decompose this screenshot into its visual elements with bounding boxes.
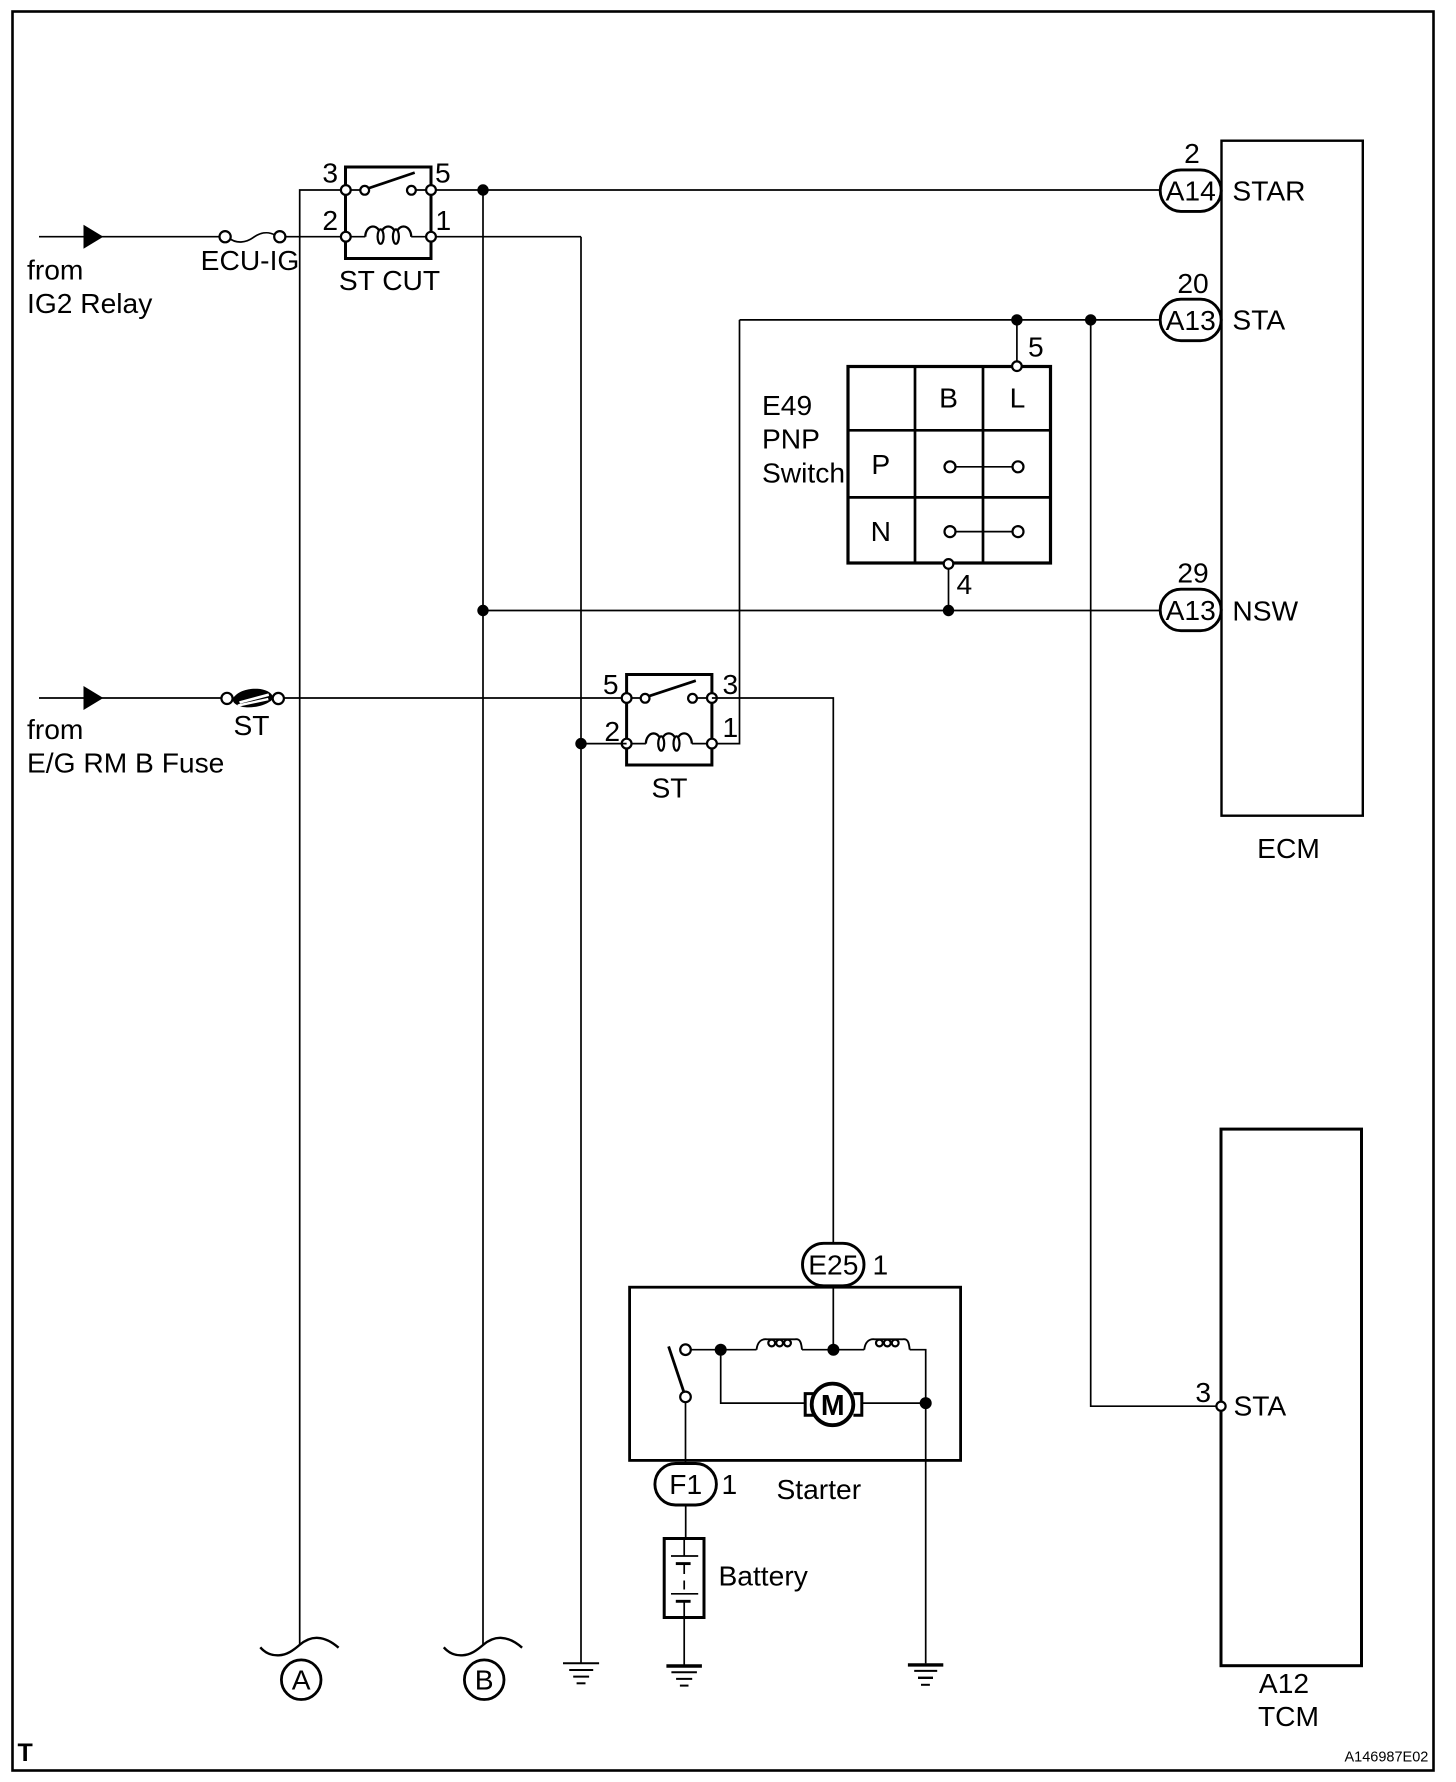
connector F1 <box>655 1464 717 1506</box>
wire switch branch down to motor <box>721 1350 806 1403</box>
wire STA corner down to ST relay pin 1 <box>712 320 740 744</box>
fuse ECU-IG <box>220 231 286 242</box>
svg-text:from: from <box>27 713 83 745</box>
svg-text:ST: ST <box>651 772 687 804</box>
ground left trunk <box>563 1663 599 1683</box>
arrow from IG2 Relay <box>84 225 104 249</box>
wire switch to connector F1 <box>685 1402 687 1462</box>
motor M <box>805 1384 862 1426</box>
svg-text:3: 3 <box>1195 1376 1211 1408</box>
svg-text:A: A <box>292 1664 311 1696</box>
svg-text:ECM: ECM <box>1257 832 1320 864</box>
wire motor right to corner <box>862 1402 926 1404</box>
wire from IG2 Relay input <box>39 236 220 238</box>
wire STA line to ECM <box>740 319 1161 321</box>
wire node on STAR line down to break B <box>482 190 484 1645</box>
svg-text:F1: F1 <box>669 1468 702 1500</box>
svg-text:from: from <box>27 254 83 286</box>
relay ST <box>622 675 717 766</box>
connector E25 <box>803 1243 865 1286</box>
pin TCM STA 3 <box>1216 1402 1225 1411</box>
PNP switch E49 <box>848 361 1051 568</box>
svg-text:5: 5 <box>603 668 619 700</box>
junction STA to TCM branch <box>1085 314 1096 325</box>
battery <box>664 1539 704 1618</box>
svg-text:T: T <box>18 1739 33 1767</box>
node A <box>281 1660 321 1700</box>
svg-text:1: 1 <box>723 711 739 743</box>
svg-text:NSW: NSW <box>1232 594 1298 626</box>
svg-text:E25: E25 <box>808 1248 858 1280</box>
svg-text:P: P <box>871 448 890 480</box>
svg-text:4: 4 <box>957 568 973 600</box>
starter coil 2 <box>864 1339 910 1349</box>
svg-text:Starter: Starter <box>777 1473 862 1505</box>
break symbol A <box>260 1638 338 1655</box>
connector A14 STAR <box>1160 170 1221 212</box>
svg-text:IG2 Relay: IG2 Relay <box>27 287 153 319</box>
svg-text:M: M <box>821 1390 845 1422</box>
wire ST CUT pin 3 left and down to break A <box>300 190 346 1645</box>
svg-text:20: 20 <box>1177 267 1208 299</box>
wire E25 into starter <box>832 1286 834 1350</box>
ECM box <box>1222 141 1363 816</box>
relay ST CUT <box>341 167 436 259</box>
node B <box>464 1660 504 1700</box>
svg-text:TCM: TCM <box>1258 1700 1319 1732</box>
ground starter <box>908 1665 943 1685</box>
svg-text:STA: STA <box>1234 1390 1287 1422</box>
svg-text:Switch: Switch <box>762 456 845 488</box>
svg-text:STAR: STAR <box>1232 174 1305 206</box>
svg-text:ST CUT: ST CUT <box>339 264 440 296</box>
ground battery <box>666 1666 702 1686</box>
wire battery to ground <box>683 1617 685 1665</box>
wire fuse ECU-IG to ST CUT pin 2 <box>285 236 345 238</box>
svg-text:B: B <box>475 1664 494 1696</box>
svg-text:L: L <box>1010 382 1026 414</box>
svg-text:A12: A12 <box>1259 1667 1309 1699</box>
fusible link ST <box>221 689 284 708</box>
wire from E/G RM B Fuse input <box>39 697 221 699</box>
TCM box <box>1221 1129 1362 1666</box>
svg-text:1: 1 <box>873 1248 889 1280</box>
wire F1 to battery <box>685 1505 687 1537</box>
connector A13 STA <box>1160 299 1221 341</box>
svg-text:PNP: PNP <box>762 423 820 455</box>
junction NSW line at break B drop <box>477 605 488 616</box>
wire ST relay pin 3 to starter connector E25 <box>712 698 833 1243</box>
wire ST CUT pin 5 to ECM STAR <box>431 189 1161 191</box>
wire PNP pin 4 drop to NSW line <box>948 569 950 611</box>
wire starter switch to coil net <box>691 1349 757 1351</box>
wire coil 2 to right branch corner <box>910 1350 926 1403</box>
svg-text:E49: E49 <box>762 389 812 421</box>
wire ST CUT pin 1 to vertical trunk <box>431 236 581 238</box>
starter coil 1 <box>757 1339 803 1349</box>
starter switch <box>669 1344 691 1402</box>
junction switch branch <box>715 1344 727 1356</box>
svg-text:STA: STA <box>1232 304 1285 336</box>
svg-text:3: 3 <box>322 157 338 189</box>
svg-text:2: 2 <box>1184 137 1200 169</box>
wire fuse ST to relay ST pin 5 <box>284 697 627 699</box>
svg-text:2: 2 <box>322 204 338 236</box>
starter box <box>630 1287 961 1460</box>
svg-text:A14: A14 <box>1166 175 1216 207</box>
svg-text:E/G RM B Fuse: E/G RM B Fuse <box>27 747 224 779</box>
svg-text:A13: A13 <box>1166 304 1216 336</box>
svg-text:1: 1 <box>722 1468 738 1500</box>
wire TCM STA branch <box>1091 320 1217 1406</box>
junction NSW line at PNP pin 4 <box>943 605 954 616</box>
svg-text:N: N <box>871 515 891 547</box>
wire ST relay pin 2 to trunk <box>581 743 627 745</box>
arrow from E/G RM B Fuse <box>84 686 104 710</box>
wire NSW line to ECM <box>483 610 1161 612</box>
svg-text:A13: A13 <box>1166 594 1216 626</box>
svg-text:1: 1 <box>436 204 452 236</box>
wire between starter coils <box>802 1349 864 1351</box>
svg-text:Battery: Battery <box>719 1560 809 1592</box>
svg-text:2: 2 <box>604 715 620 747</box>
junction trunk at ST relay pin 2 <box>575 738 586 749</box>
svg-text:3: 3 <box>723 668 739 700</box>
svg-text:A146987E02: A146987E02 <box>1345 1750 1429 1766</box>
svg-text:5: 5 <box>1028 331 1044 363</box>
svg-text:29: 29 <box>1177 557 1208 589</box>
break symbol B <box>444 1638 522 1655</box>
svg-text:B: B <box>939 382 958 414</box>
connector A13 NSW <box>1160 589 1221 631</box>
junction node STAR line <box>477 184 488 195</box>
junction STA to PNP pin 5 <box>1011 314 1022 325</box>
junction E25 drop at coil net <box>827 1344 839 1356</box>
wire starter right branch to ground <box>925 1403 927 1663</box>
junction starter right branch <box>920 1397 932 1409</box>
svg-text:ST: ST <box>233 709 269 741</box>
svg-text:ECU-IG: ECU-IG <box>201 244 300 276</box>
svg-text:5: 5 <box>435 157 451 189</box>
wire PNP pin 5 drop <box>1016 320 1018 362</box>
wire vertical trunk to left ground <box>580 237 582 1664</box>
